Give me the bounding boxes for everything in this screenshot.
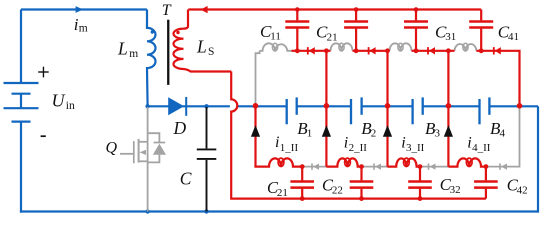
svg-text:32: 32 [450, 184, 461, 196]
svg-text:Q: Q [106, 140, 118, 157]
svg-text:11: 11 [270, 31, 281, 43]
svg-text:3: 3 [435, 128, 441, 140]
svg-text:U: U [52, 91, 66, 111]
svg-text:in: in [66, 100, 75, 112]
svg-text:1_II: 1_II [280, 142, 299, 154]
svg-text:2_II: 2_II [349, 142, 368, 154]
svg-text:L: L [196, 36, 207, 56]
svg-text:4_II: 4_II [472, 142, 491, 154]
svg-text:i: i [467, 135, 471, 152]
svg-text:D: D [173, 118, 187, 138]
svg-text:3_II: 3_II [406, 142, 425, 154]
svg-text:L: L [117, 38, 128, 58]
svg-text:31: 31 [445, 31, 456, 43]
svg-text:m: m [79, 22, 88, 34]
svg-text:i: i [401, 135, 405, 152]
svg-text:21: 21 [277, 187, 288, 199]
svg-text:2: 2 [371, 128, 377, 140]
svg-text:41: 41 [508, 31, 519, 43]
svg-text:S: S [208, 46, 214, 58]
svg-text:m: m [129, 48, 138, 60]
svg-text:i: i [275, 134, 279, 151]
svg-text:C: C [180, 169, 192, 189]
svg-text:4: 4 [500, 128, 506, 140]
svg-text:21: 21 [327, 31, 338, 43]
svg-text:42: 42 [517, 185, 528, 197]
svg-text:22: 22 [332, 185, 343, 197]
svg-text:i: i [344, 135, 348, 152]
svg-text:T: T [162, 2, 172, 19]
svg-text:1: 1 [307, 128, 313, 140]
